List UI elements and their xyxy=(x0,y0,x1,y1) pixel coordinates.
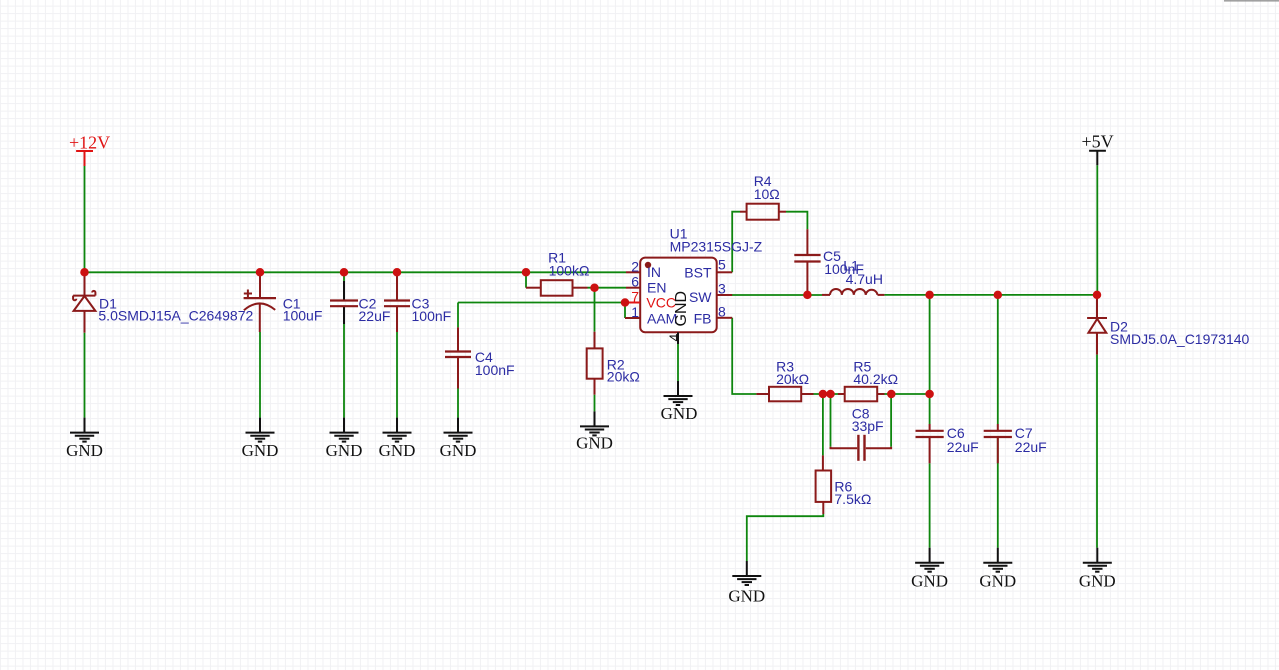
svg-text:100kΩ: 100kΩ xyxy=(549,263,590,279)
capacitor C1 (polarized) xyxy=(244,272,276,332)
wire D1 anode to GND xyxy=(84,333,86,418)
wire L1 to output rail xyxy=(884,294,1097,296)
svg-text:100nF: 100nF xyxy=(412,308,452,324)
junction rail/C7 xyxy=(994,291,1003,300)
svg-text:8: 8 xyxy=(718,304,726,320)
svg-text:40.2kΩ: 40.2kΩ xyxy=(853,371,898,387)
wire R2 bottom to GND xyxy=(594,395,596,412)
junction C3 xyxy=(393,268,402,277)
wire C7 drop from rail xyxy=(997,295,999,424)
svg-text:EN: EN xyxy=(647,280,666,296)
wire R5 right to C6 column xyxy=(885,393,930,395)
wire R1 feed from rail xyxy=(525,272,527,287)
svg-text:22uF: 22uF xyxy=(359,308,391,324)
wire R1 right to pin6 xyxy=(588,287,627,289)
junction SW/C5 xyxy=(803,291,812,300)
svg-text:GND: GND xyxy=(440,441,477,460)
pin 2 stub xyxy=(626,271,640,273)
ground U1 xyxy=(661,381,698,423)
svg-text:20kΩ: 20kΩ xyxy=(607,369,640,385)
wire C6 bottom to GND xyxy=(929,463,931,547)
svg-text:20kΩ: 20kΩ xyxy=(776,371,809,387)
ground D2 xyxy=(1079,548,1116,591)
svg-text:GND: GND xyxy=(661,404,698,423)
svg-text:GND: GND xyxy=(1079,572,1116,591)
junction rail/D2/+5V xyxy=(1093,291,1102,300)
junction at +12V rail / D1 xyxy=(80,268,89,277)
svg-text:GND: GND xyxy=(379,441,416,460)
inductor L1 xyxy=(822,289,884,295)
junction R5/C6 xyxy=(925,390,934,399)
svg-text:1: 1 xyxy=(631,304,639,320)
svg-text:4.7uH: 4.7uH xyxy=(846,271,883,287)
wire C1 bottom to GND xyxy=(259,332,261,418)
ground C3 xyxy=(379,418,416,460)
resistor R2 xyxy=(587,332,603,395)
svg-text:GND: GND xyxy=(66,441,103,460)
wire main top rail xyxy=(85,271,627,273)
junction rail/C6 xyxy=(925,291,934,300)
pin 6 stub xyxy=(626,287,640,289)
wire C4 drop xyxy=(457,303,459,328)
IC U1 MP2315SGJ-Z xyxy=(625,258,732,344)
svg-text:5.0SMDJ15A_C2649872: 5.0SMDJ15A_C2649872 xyxy=(98,308,253,324)
wire C8 left leg xyxy=(830,394,832,447)
svg-text:SMDJ5.0A_C1973140: SMDJ5.0A_C1973140 xyxy=(1110,331,1250,347)
pin 1 indicator dot xyxy=(645,262,651,268)
capacitor C3 xyxy=(384,272,410,332)
pin 7 stub (VCC, red) xyxy=(625,302,640,304)
wire R6 top from junction xyxy=(822,394,824,455)
pin 4 stub xyxy=(677,332,679,344)
svg-text:BST: BST xyxy=(684,265,712,281)
wire VCC horizontal C4 to pin7 xyxy=(458,302,625,304)
svg-text:100nF: 100nF xyxy=(475,362,515,378)
ground C1 xyxy=(242,418,279,460)
wire C4 bottom to GND xyxy=(457,389,459,418)
wire C2 bottom to GND xyxy=(343,324,345,418)
wire D2 bottom to GND xyxy=(1096,355,1098,548)
power flag +5V xyxy=(1082,132,1114,166)
pin 1 stub xyxy=(625,317,640,319)
svg-text:+12V: +12V xyxy=(69,133,110,153)
ground R2 xyxy=(576,411,613,452)
svg-text:3: 3 xyxy=(718,281,726,297)
diode D2 xyxy=(1087,295,1107,355)
wire pin7 junction down to pin1 xyxy=(624,303,626,319)
svg-text:GND: GND xyxy=(979,572,1016,591)
svg-text:10Ω: 10Ω xyxy=(754,186,780,202)
junction R1/R2/EN xyxy=(590,283,599,292)
pin 5 stub xyxy=(717,271,733,273)
svg-text:GND: GND xyxy=(673,291,690,327)
svg-text:VCC: VCC xyxy=(646,295,676,311)
svg-text:GND: GND xyxy=(576,434,613,453)
svg-text:22uF: 22uF xyxy=(947,439,979,455)
capacitor C4 xyxy=(445,327,471,388)
svg-text:SW: SW xyxy=(689,289,712,305)
ground C6 xyxy=(911,548,948,591)
power flag +12V xyxy=(69,133,110,167)
svg-text:GND: GND xyxy=(728,587,765,606)
resistor R5 xyxy=(838,387,885,402)
svg-text:GND: GND xyxy=(242,441,279,460)
wire +5V stub down to rail xyxy=(1096,165,1098,295)
resistor R6 xyxy=(816,455,832,514)
ground R6 xyxy=(728,561,765,606)
wire C2 top nub xyxy=(343,272,345,281)
wire R2 top from junction xyxy=(594,288,596,332)
ground D1 xyxy=(66,418,103,460)
junction R3/R6 xyxy=(819,390,828,399)
svg-text:7.5kΩ: 7.5kΩ xyxy=(834,491,871,507)
svg-text:33pF: 33pF xyxy=(852,418,884,434)
svg-text:IN: IN xyxy=(647,264,661,280)
svg-text:GND: GND xyxy=(911,572,948,591)
pin 8 stub xyxy=(717,317,733,319)
junction C1 xyxy=(256,268,265,277)
toolbar shadow top right xyxy=(1224,0,1279,2)
svg-text:GND: GND xyxy=(326,441,363,460)
resistor R1 xyxy=(526,280,588,296)
svg-text:7: 7 xyxy=(631,289,639,305)
capacitor C8 xyxy=(831,435,892,461)
svg-text:6: 6 xyxy=(631,274,639,290)
wire +12V stub down to rail xyxy=(84,166,86,272)
svg-text:MP2315SGJ-Z: MP2315SGJ-Z xyxy=(670,238,763,254)
wire SW to L1 xyxy=(732,294,822,296)
junction R3/C8 xyxy=(826,390,835,399)
svg-text:2: 2 xyxy=(631,258,639,274)
svg-text:22uF: 22uF xyxy=(1015,439,1047,455)
ground C4 xyxy=(440,418,477,460)
svg-text:100uF: 100uF xyxy=(283,308,323,324)
capacitor C7 xyxy=(984,424,1012,463)
wire BST up xyxy=(732,212,740,273)
junction R1 tap xyxy=(522,268,531,277)
wire C7 bottom to GND xyxy=(997,437,999,548)
ground C7 xyxy=(979,548,1016,591)
resistor R4 xyxy=(740,204,786,220)
svg-text:4: 4 xyxy=(666,334,682,342)
svg-text:FB: FB xyxy=(694,310,712,326)
wire C6 drop from rail xyxy=(929,295,931,424)
wire C3 bottom to GND xyxy=(396,332,398,418)
junction C2 xyxy=(340,268,349,277)
junction VCC pin7 xyxy=(621,298,630,307)
junction R5/C8 xyxy=(887,390,896,399)
capacitor C2 xyxy=(343,281,345,324)
wire R4 right corner down to C5 xyxy=(786,212,807,230)
svg-text:+5V: +5V xyxy=(1082,132,1114,152)
wire C8 right leg xyxy=(890,394,892,447)
wire R6 bottom corner to GND xyxy=(747,514,824,561)
ground C2 xyxy=(326,418,363,460)
wire R3 right to junctions xyxy=(814,393,845,395)
svg-text:5: 5 xyxy=(718,257,726,273)
capacitor C6 xyxy=(916,424,944,463)
capacitor C5 xyxy=(794,229,820,295)
diode D1 (TVS) xyxy=(73,272,95,332)
pin 3 stub xyxy=(717,294,733,296)
resistor R3 xyxy=(756,387,813,402)
wire pin4 to GND xyxy=(677,344,679,381)
wire FB down and to R3 xyxy=(732,318,756,394)
